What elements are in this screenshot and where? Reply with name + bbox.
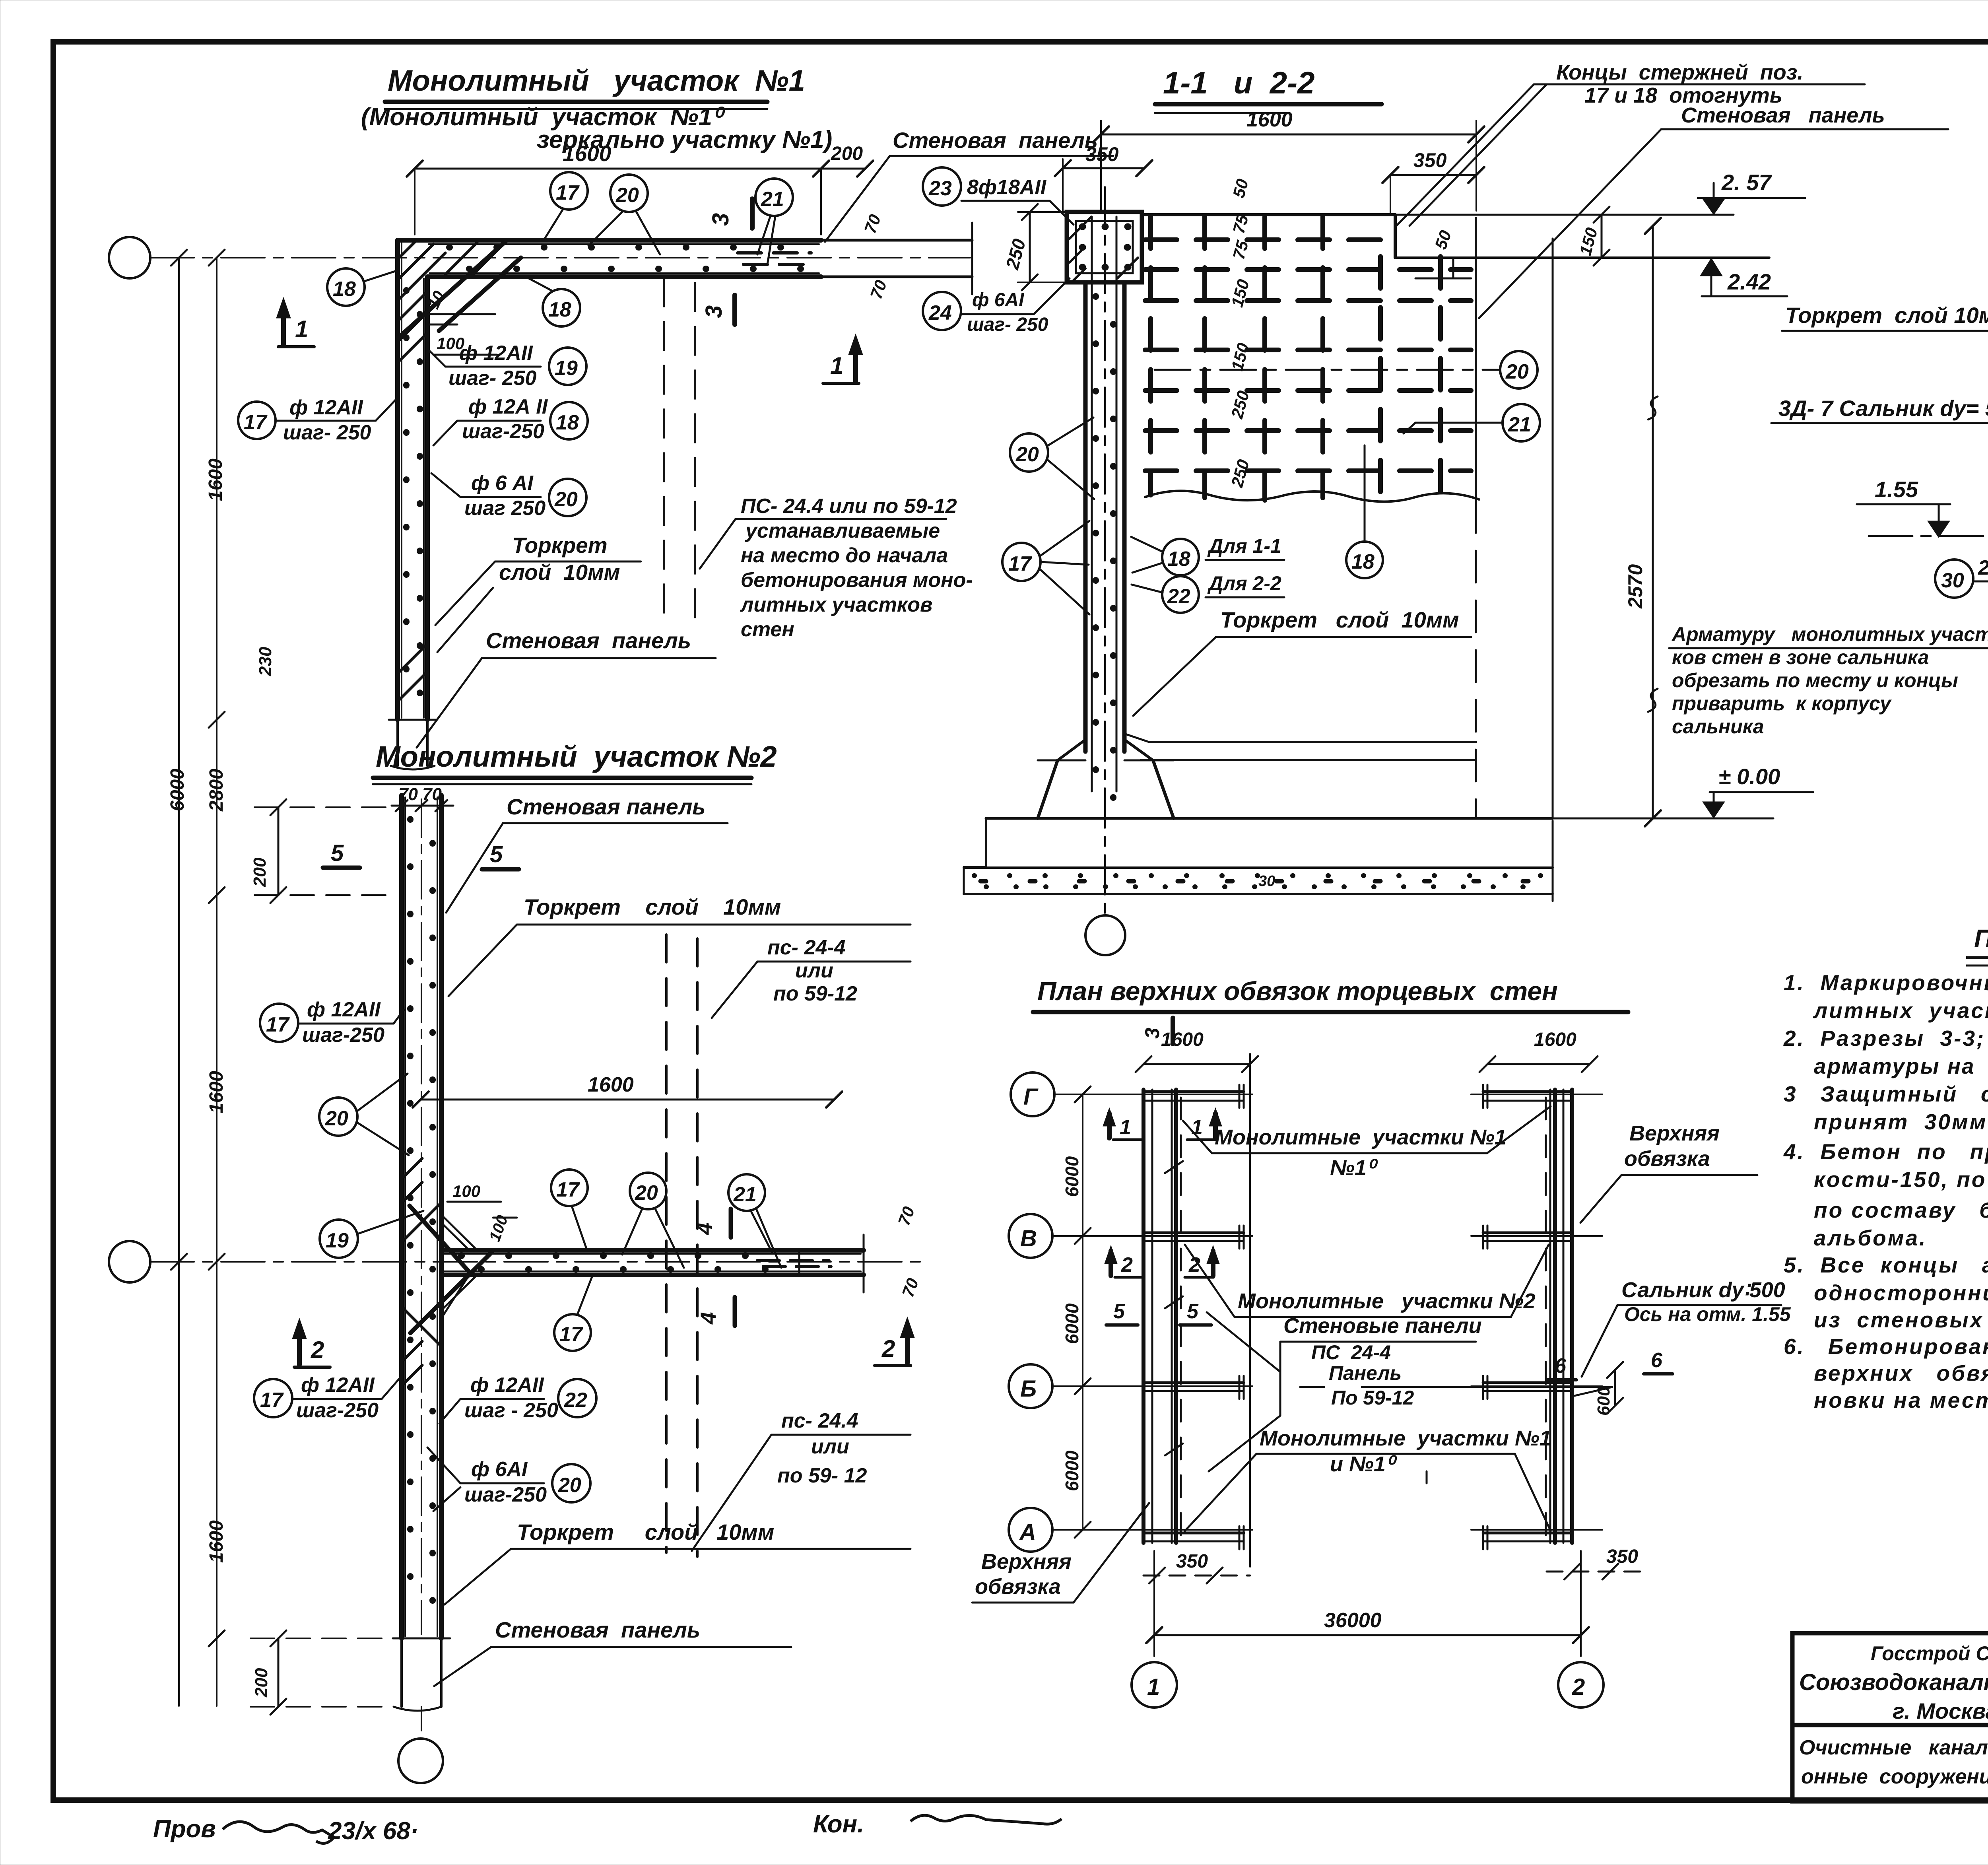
svg-text:Торкрет слой 10мм: Торкрет слой 10мм bbox=[1220, 607, 1459, 632]
svg-text:шаг- 250: шаг- 250 bbox=[283, 421, 371, 444]
svg-text:70: 70 bbox=[894, 1204, 918, 1228]
svg-text:17: 17 bbox=[556, 1178, 580, 1201]
svg-text:Сальник dy∶500: Сальник dy∶500 bbox=[1621, 1278, 1785, 1302]
svg-text:30: 30 bbox=[1941, 569, 1964, 592]
svg-text:1600: 1600 bbox=[588, 1073, 634, 1096]
axis bubble А bbox=[1009, 1508, 1052, 1552]
bubble 17 wall left bbox=[1002, 543, 1041, 581]
svg-text:350: 350 bbox=[1085, 143, 1119, 165]
svg-text:50: 50 bbox=[1431, 228, 1455, 252]
svg-text:Ось на отм. 1.55: Ось на отм. 1.55 bbox=[1624, 1303, 1791, 1325]
svg-text:2800: 2800 bbox=[206, 769, 227, 812]
junction bent bars X bbox=[410, 1206, 468, 1271]
svg-text:обвязка: обвязка bbox=[975, 1575, 1061, 1599]
svg-text:5. Все концы арматуры по: 5. Все концы арматуры позиций 17; 18 и 2… bbox=[1784, 1253, 1988, 1277]
svg-text:шаг- 250: шаг- 250 bbox=[448, 367, 537, 390]
svg-text:70: 70 bbox=[898, 1276, 922, 1300]
svg-text:50: 50 bbox=[1229, 177, 1252, 200]
svg-text:1600: 1600 bbox=[1534, 1029, 1576, 1050]
svg-text:на место до начала: на место до начала bbox=[741, 544, 948, 567]
svg-text:ПС 24-4: ПС 24-4 bbox=[1311, 1341, 1391, 1364]
svg-text:Концы стержней поз.: Концы стержней поз. bbox=[1556, 60, 1803, 84]
corner hatch uch1 bbox=[399, 241, 416, 258]
svg-text:6000: 6000 bbox=[1062, 1450, 1082, 1491]
rebar dots uch2 vertical bbox=[407, 819, 414, 1614]
svg-text:Монолитные участки №2: Монолитные участки №2 bbox=[1238, 1289, 1536, 1313]
svg-text:обвязка: обвязка bbox=[1624, 1147, 1710, 1171]
svg-text:17: 17 bbox=[556, 181, 580, 204]
svg-text:100: 100 bbox=[452, 1182, 480, 1201]
svg-text:18: 18 bbox=[1351, 550, 1375, 573]
svg-text:Б: Б bbox=[1020, 1376, 1037, 1402]
axis circle uch1 bbox=[109, 237, 150, 278]
svg-text:ф 6 АI: ф 6 АI bbox=[471, 472, 534, 495]
svg-text:В: В bbox=[1020, 1226, 1037, 1251]
svg-text:Верхняя: Верхняя bbox=[981, 1550, 1072, 1574]
svg-text:ков стен в зоне сальника: ков стен в зоне сальника bbox=[1672, 646, 1929, 668]
svg-text:Примечания:: Примечания: bbox=[1974, 924, 1988, 953]
svg-text:Кон.: Кон. bbox=[813, 1811, 864, 1838]
svg-text:А: А bbox=[1019, 1519, 1036, 1545]
svg-text:Пров: Пров bbox=[153, 1815, 216, 1843]
svg-text:Очистные канализаци-: Очистные канализаци- bbox=[1799, 1736, 1988, 1759]
svg-text:6. Бетонирование монолитны: 6. Бетонирование монолитных. участков и bbox=[1784, 1334, 1988, 1359]
bubble 22 для 2-2 bbox=[1162, 576, 1199, 613]
svg-text:6: 6 bbox=[1555, 1354, 1567, 1377]
right assembly verticals bbox=[1570, 1090, 1574, 1543]
wavy break line bottom of grid bbox=[1145, 491, 1479, 501]
wall panel below bbox=[396, 720, 399, 766]
svg-text:30: 30 bbox=[1258, 873, 1275, 890]
handwritten marks below frame bbox=[153, 1808, 1988, 1845]
svg-text:Панель: Панель bbox=[1329, 1362, 1402, 1384]
top slab line and step bbox=[1142, 213, 1395, 216]
svg-text:Союзводоканалпроект: Союзводоканалпроект bbox=[1799, 1669, 1988, 1695]
svg-text:1. Маркировочный план р: 1. Маркировочный план расположения моно- bbox=[1784, 970, 1988, 995]
svg-text:ф 12АII: ф 12АII bbox=[470, 1373, 544, 1397]
svg-text:250: 250 bbox=[1227, 389, 1253, 421]
svg-text:сальника: сальника bbox=[1672, 715, 1764, 738]
svg-text:17: 17 bbox=[1008, 552, 1032, 575]
svg-text:слой 10мм: слой 10мм bbox=[499, 560, 620, 585]
wall horizontal leg uch2 bbox=[441, 1248, 864, 1253]
svg-text:2ф12 АII: 2ф12 АII bbox=[1978, 556, 1988, 579]
svg-text:ф 12АII: ф 12АII bbox=[307, 998, 381, 1021]
svg-text:ф 12А II: ф 12А II bbox=[468, 395, 548, 418]
foundation pedestal bbox=[1058, 740, 1085, 760]
svg-text:2. Разрезы 3-3; 4-4; 5- 5 и: 2. Разрезы 3-3; 4-4; 5- 5 и спецификацию bbox=[1783, 1026, 1988, 1051]
bubble 17 top bbox=[550, 172, 588, 210]
svg-text:новки на место стеновых па: новки на место стеновых панелей. bbox=[1814, 1388, 1988, 1412]
axis line uch2 bbox=[150, 1261, 922, 1263]
axis circle bottom sec bbox=[1085, 915, 1125, 955]
svg-text:Торкрет слой 10мм: Торкрет слой 10мм bbox=[517, 1519, 774, 1544]
bubble 24 bbox=[923, 292, 961, 330]
svg-text:шаг-250: шаг-250 bbox=[464, 1483, 547, 1506]
svg-text:20: 20 bbox=[1015, 443, 1039, 466]
svg-text:17: 17 bbox=[266, 1013, 290, 1036]
svg-text:8ф18АII: 8ф18АII bbox=[967, 176, 1047, 199]
svg-text:6000: 6000 bbox=[1062, 1303, 1082, 1344]
svg-text:230: 230 bbox=[256, 647, 275, 676]
corner step dims 100 bbox=[429, 313, 495, 315]
section mark 1 right bbox=[853, 342, 858, 382]
title block outer bbox=[1792, 1633, 1988, 1801]
svg-text:19: 19 bbox=[555, 357, 578, 380]
bubble 20 top bbox=[610, 175, 648, 212]
label f12AII pos17 left bbox=[238, 402, 276, 439]
wall rebar dots bbox=[1093, 296, 1099, 807]
svg-text:22: 22 bbox=[1167, 585, 1190, 608]
svg-text:23/х 68·: 23/х 68· bbox=[328, 1817, 419, 1845]
svg-text:Монолитный участок №2: Монолитный участок №2 bbox=[376, 740, 777, 773]
left assembly verticals bbox=[1142, 1090, 1145, 1543]
axis circle uch2 bbox=[109, 1241, 150, 1282]
svg-text:Стеновая панель: Стеновая панель bbox=[893, 128, 1098, 153]
rebar dots vertical leg bbox=[403, 290, 410, 708]
section: разрез 1-1 и 2-2 bbox=[923, 60, 1988, 955]
svg-text:350: 350 bbox=[1413, 149, 1447, 171]
junction corner chamfers bbox=[441, 1215, 477, 1250]
svg-text:стен: стен bbox=[741, 618, 794, 641]
vertical dim 6000 chain bbox=[1082, 1094, 1083, 1530]
svg-text:Г: Г bbox=[1023, 1084, 1039, 1110]
svg-text:3: 3 bbox=[1141, 1028, 1163, 1039]
svg-text:70: 70 bbox=[860, 212, 884, 236]
bubble 20 grid right bbox=[1500, 351, 1538, 389]
svg-text:1: 1 bbox=[295, 316, 308, 342]
svg-text:1600: 1600 bbox=[205, 458, 226, 501]
bubble 19 bbox=[549, 348, 586, 385]
svg-text:Арматуру монолитных участ-: Арматуру монолитных участ- bbox=[1671, 623, 1988, 645]
svg-text:17: 17 bbox=[559, 1323, 583, 1346]
svg-text:ПС- 24.4 или по 59-12: ПС- 24.4 или по 59-12 bbox=[741, 495, 957, 518]
svg-text:ф 6АI: ф 6АI bbox=[972, 289, 1025, 311]
hatch ticks wall bottom uch1 bbox=[399, 674, 425, 700]
svg-text:принят 30мм.: принят 30мм. bbox=[1814, 1109, 1988, 1134]
svg-text:36000: 36000 bbox=[1324, 1609, 1382, 1632]
beam rebar dots 8ф18 bbox=[1082, 223, 1129, 230]
bubble 18 under grid bbox=[1346, 542, 1383, 578]
bubble 20 wall left bbox=[1010, 433, 1048, 472]
svg-text:устанавливаемые: устанавливаемые bbox=[744, 519, 940, 542]
svg-text:г. Москва: г. Москва bbox=[1893, 1698, 1988, 1723]
wall panel below uch2 bbox=[400, 1638, 403, 1707]
svg-text:23: 23 bbox=[928, 177, 952, 200]
bubble 20 uch2 bbox=[319, 1098, 357, 1136]
svg-text:2: 2 bbox=[1121, 1253, 1133, 1276]
svg-text:2.42: 2.42 bbox=[1727, 269, 1771, 294]
svg-text:3: 3 bbox=[708, 213, 734, 226]
svg-text:250: 250 bbox=[1227, 457, 1253, 490]
svg-text:по 59-12: по 59-12 bbox=[773, 982, 857, 1005]
svg-text:5: 5 bbox=[490, 841, 503, 867]
svg-text:4: 4 bbox=[696, 1312, 720, 1325]
left assembly rungs bbox=[1143, 1090, 1244, 1093]
svg-text:арматуры на монолитные учас: арматуры на монолитные участки см. на ли… bbox=[1814, 1054, 1988, 1078]
svg-text:2: 2 bbox=[311, 1337, 324, 1363]
svg-text:обрезать по месту и концы: обрезать по месту и концы bbox=[1672, 669, 1958, 692]
hatch ticks on wall uch2 bbox=[404, 1158, 422, 1177]
svg-text:21: 21 bbox=[761, 188, 784, 211]
svg-text:2: 2 bbox=[881, 1335, 895, 1362]
обвязка beam top bbox=[1067, 212, 1142, 282]
svg-text:литных участков: литных участков bbox=[740, 593, 932, 616]
svg-text:200: 200 bbox=[250, 857, 270, 887]
left assembly joint ticks bbox=[1165, 1161, 1183, 1173]
wall of section bbox=[1083, 282, 1088, 752]
svg-text:3: 3 bbox=[701, 305, 727, 318]
section marks 1 plan bbox=[1107, 1113, 1112, 1138]
bubble 30 left + 2ф12 bbox=[1935, 559, 1973, 598]
svg-text:17: 17 bbox=[244, 411, 268, 434]
svg-text:по составу бетона см. поя: по составу бетона см. пояснительную запи… bbox=[1814, 1198, 1988, 1222]
axis line horizontal uch1 bbox=[150, 257, 970, 258]
bubble 20 over leg bbox=[630, 1173, 666, 1209]
svg-text:Торкрет слой 10мм: Торкрет слой 10мм bbox=[524, 894, 781, 919]
svg-text:ф 12АII: ф 12АII bbox=[289, 396, 363, 419]
wall vertical leg uch1 bbox=[395, 240, 400, 720]
svg-text:литных участков стен см. на: литных участков стен см. на листе АС- 6. bbox=[1813, 998, 1988, 1023]
svg-text:21: 21 bbox=[733, 1183, 757, 1206]
svg-text:1: 1 bbox=[1120, 1116, 1131, 1139]
svg-text:19: 19 bbox=[326, 1229, 349, 1252]
svg-text:150: 150 bbox=[1576, 225, 1601, 257]
bent corner bars uch1 bbox=[398, 241, 506, 338]
svg-text:22: 22 bbox=[564, 1389, 587, 1412]
svg-text:3 Защитный слой бетона.: 3 Защитный слой бетона. для арматуры bbox=[1784, 1082, 1988, 1106]
gravel bed strip bbox=[964, 866, 1553, 869]
svg-text:5: 5 bbox=[1113, 1300, 1125, 1323]
title block divider left horizontal bbox=[1792, 1723, 1988, 1727]
svg-text:18: 18 bbox=[333, 278, 356, 301]
floor slab lines right bbox=[1124, 734, 1149, 742]
svg-text:пс- 24.4: пс- 24.4 bbox=[781, 1409, 858, 1432]
svg-text:Монолитные участки №1: Монолитные участки №1 bbox=[1215, 1125, 1507, 1149]
section mark 2 left bbox=[297, 1326, 302, 1365]
bubble 17 + label uch2 upper bbox=[260, 1004, 298, 1042]
axis lines horizontal plan bbox=[1054, 1094, 1252, 1095]
svg-text:2: 2 bbox=[1572, 1674, 1585, 1700]
wall horizontal leg uch1 bbox=[398, 238, 821, 243]
right boundary verticals bbox=[1475, 218, 1477, 501]
svg-text:шаг-250: шаг-250 bbox=[302, 1024, 384, 1047]
svg-text:кости-150, по водонепроницае: кости-150, по водонепроницаемости - В- 6… bbox=[1814, 1167, 1988, 1192]
svg-text:ф 6АI: ф 6АI bbox=[471, 1458, 528, 1481]
dim 2570 bbox=[1652, 226, 1654, 818]
svg-text:Торкрет: Торкрет bbox=[512, 533, 608, 558]
svg-text:Для 2-2: Для 2-2 bbox=[1207, 572, 1281, 594]
svg-text:4. Бетон по прочности м: 4. Бетон по прочности марки 200 по мороз… bbox=[1783, 1139, 1988, 1164]
svg-text:350: 350 bbox=[1176, 1551, 1208, 1572]
right assembly rungs bbox=[1483, 1090, 1572, 1093]
svg-text:Стеновая панель: Стеновая панель bbox=[507, 794, 706, 819]
svg-text:Стеновые панели: Стеновые панели bbox=[1283, 1314, 1482, 1338]
svg-text:Монолитные участки №1: Монолитные участки №1 bbox=[1260, 1426, 1551, 1450]
section: деталь 6-6 bbox=[1771, 194, 1988, 836]
svg-text:200: 200 bbox=[252, 1668, 271, 1698]
svg-text:односторонними швами с выпус: односторонними швами с выпусками арматур… bbox=[1814, 1280, 1988, 1305]
svg-text:или: или bbox=[811, 1435, 849, 1458]
svg-text:приварить к корпусу: приварить к корпусу bbox=[1672, 692, 1892, 715]
svg-text:или: или bbox=[795, 959, 833, 982]
title block bbox=[1792, 1633, 1988, 1801]
bubble 17 over leg bbox=[551, 1170, 588, 1206]
svg-text:Торкрет слой 10мм: Торкрет слой 10мм bbox=[1785, 303, 1988, 328]
svg-text:Монолитный участок №1: Монолитный участок №1 bbox=[388, 64, 805, 97]
svg-text:18: 18 bbox=[1167, 548, 1190, 571]
svg-text:4: 4 bbox=[692, 1222, 716, 1235]
svg-text:1: 1 bbox=[1147, 1674, 1160, 1700]
svg-text:20: 20 bbox=[325, 1107, 348, 1130]
section: план верхних обвязок торцевых стен bbox=[972, 976, 1791, 1708]
dimension 1600 top bbox=[415, 168, 865, 170]
wall panel continuation right bbox=[821, 239, 972, 242]
bubble 17 under leg bbox=[554, 1314, 591, 1351]
svg-text:Стеновая панель: Стеновая панель bbox=[486, 628, 691, 653]
svg-text:6000: 6000 bbox=[167, 769, 188, 811]
dashed bars right end uch2 bbox=[757, 1259, 829, 1262]
axis bubble 2 plan bbox=[1558, 1662, 1604, 1708]
svg-text:18: 18 bbox=[548, 298, 571, 321]
bubble 18 mid bbox=[543, 289, 580, 326]
svg-text:6000: 6000 bbox=[1062, 1156, 1082, 1197]
svg-text:150: 150 bbox=[1227, 277, 1253, 309]
svg-text:2. 57: 2. 57 bbox=[1721, 170, 1772, 195]
dashed verticals uch2 bbox=[665, 934, 668, 1553]
svg-text:20: 20 bbox=[635, 1181, 658, 1204]
svg-text:21: 21 bbox=[1508, 413, 1531, 436]
svg-text:± 0.00: ± 0.00 bbox=[1718, 764, 1780, 789]
svg-text:1600: 1600 bbox=[1161, 1029, 1204, 1050]
svg-text:1600: 1600 bbox=[206, 1520, 227, 1563]
dashed verticals uch1 bbox=[663, 278, 665, 618]
svg-text:1.55: 1.55 bbox=[1875, 477, 1918, 502]
bubble 18 left bbox=[327, 268, 365, 306]
svg-text:и №1⁰: и №1⁰ bbox=[1330, 1452, 1398, 1476]
svg-text:200: 200 bbox=[831, 143, 863, 164]
svg-text:шаг - 250: шаг - 250 bbox=[464, 1399, 558, 1422]
axis bubble 1 plan bbox=[1132, 1662, 1177, 1708]
svg-text:20: 20 bbox=[1505, 360, 1529, 383]
svg-text:20: 20 bbox=[558, 1474, 581, 1497]
svg-text:150: 150 bbox=[1227, 341, 1253, 373]
svg-text:1-1 и 2-2: 1-1 и 2-2 bbox=[1163, 65, 1314, 100]
label f12AII pos17 lower bbox=[254, 1379, 292, 1417]
svg-text:ф 12АII: ф 12АII bbox=[459, 342, 533, 365]
dashed bars pos21 right end bbox=[738, 251, 811, 254]
svg-text:350: 350 bbox=[1606, 1546, 1638, 1567]
svg-text:Для 1-1: Для 1-1 bbox=[1207, 535, 1281, 557]
wall axis line bbox=[1104, 187, 1106, 915]
section mark 2 right bbox=[905, 1325, 910, 1363]
svg-text:1600: 1600 bbox=[206, 1071, 227, 1113]
svg-text:из стеновых панелей на всю: из стеновых панелей на всю длину стыка. bbox=[1814, 1307, 1988, 1332]
section: примечания bbox=[1783, 924, 1988, 1412]
bubble 21 grid right bbox=[1503, 404, 1540, 441]
section marks 2 plan bbox=[1109, 1251, 1113, 1276]
svg-text:17: 17 bbox=[260, 1389, 284, 1412]
section: Монолитный участок №1 bbox=[109, 64, 1113, 769]
svg-text:ф 12АII: ф 12АII bbox=[301, 1373, 375, 1397]
svg-text:по 59- 12: по 59- 12 bbox=[777, 1464, 867, 1487]
svg-text:2570: 2570 bbox=[1624, 564, 1646, 609]
svg-text:Госстрой СССР: Госстрой СССР bbox=[1871, 1642, 1988, 1665]
rebar dots horizontal leg bbox=[449, 244, 811, 251]
svg-text:онные сооружения: онные сооружения bbox=[1801, 1765, 1988, 1788]
dashed grid verticals bbox=[1148, 217, 1153, 495]
axis bubble В bbox=[1009, 1214, 1052, 1258]
bubble 19 uch2 bbox=[320, 1220, 358, 1258]
svg-text:1600: 1600 bbox=[1246, 108, 1293, 131]
svg-text:Стеновая панель: Стеновая панель bbox=[495, 1617, 700, 1642]
svg-text:верхних обвязок стен произ: верхних обвязок стен производить после у… bbox=[1814, 1361, 1988, 1385]
svg-text:6: 6 bbox=[1651, 1349, 1663, 1372]
svg-text:250: 250 bbox=[1002, 237, 1029, 272]
svg-text:70: 70 bbox=[866, 278, 890, 301]
svg-text:1: 1 bbox=[830, 352, 843, 379]
svg-text:20: 20 bbox=[554, 488, 578, 511]
svg-text:3Д- 7 Сальник dy= 500: 3Д- 7 Сальник dy= 500 bbox=[1778, 396, 1988, 421]
svg-text:бетонирования моно-: бетонирования моно- bbox=[741, 569, 973, 592]
section: Монолитный участок №2 bbox=[109, 250, 922, 1783]
svg-text:5: 5 bbox=[1187, 1300, 1199, 1323]
svg-text:пс- 24-4: пс- 24-4 bbox=[767, 936, 846, 959]
left dimension chain shared bbox=[178, 258, 180, 1706]
section mark 1 left bbox=[281, 305, 286, 345]
svg-text:шаг-250: шаг-250 bbox=[296, 1399, 379, 1422]
axis circle bottom uch2 bbox=[398, 1739, 443, 1783]
svg-text:По 59-12: По 59-12 bbox=[1331, 1387, 1414, 1409]
svg-text:шаг-250: шаг-250 bbox=[462, 420, 544, 443]
floor level line bbox=[986, 817, 1553, 820]
bubble 23 bbox=[923, 167, 961, 206]
svg-text:1600: 1600 bbox=[563, 141, 612, 166]
svg-text:18: 18 bbox=[556, 411, 579, 434]
svg-text:20: 20 bbox=[615, 184, 639, 207]
svg-text:Стеновая панель: Стеновая панель bbox=[1681, 103, 1885, 127]
bubble 21 top bbox=[755, 179, 793, 216]
axis bubble Б bbox=[1009, 1364, 1052, 1408]
rebar dots uch2 horizontal bbox=[461, 1253, 791, 1259]
axis bubble Г bbox=[1011, 1072, 1054, 1116]
svg-text:Верхняя: Верхняя bbox=[1629, 1121, 1720, 1145]
bubble 18 для 1-1 bbox=[1162, 539, 1199, 575]
svg-text:5: 5 bbox=[331, 840, 344, 866]
svg-text:шаг 250: шаг 250 bbox=[464, 497, 546, 520]
svg-text:шаг- 250: шаг- 250 bbox=[967, 314, 1048, 335]
bubble 21 over leg bbox=[728, 1174, 765, 1211]
svg-text:№1⁰: №1⁰ bbox=[1330, 1156, 1378, 1180]
hatch ticks top strip uch1 bbox=[445, 243, 477, 274]
dashed grid horizontals bbox=[1145, 237, 1384, 242]
svg-text:альбома.: альбома. bbox=[1814, 1226, 1927, 1250]
wall vertical uch2 bbox=[399, 795, 404, 1638]
svg-text:План верхних обвязок торцевых: План верхних обвязок торцевых стен bbox=[1037, 976, 1558, 1006]
svg-text:24: 24 bbox=[928, 301, 952, 324]
